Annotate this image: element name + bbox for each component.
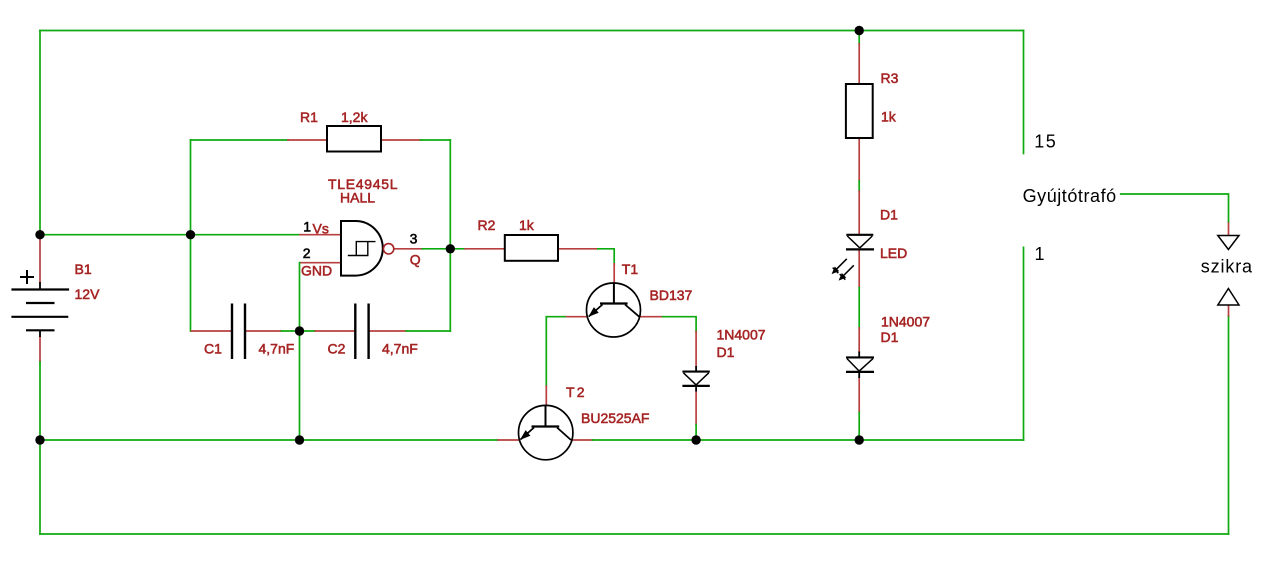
wire LED anode pin stub (red)	[858, 191, 860, 235]
svg-text:T2: T2	[566, 384, 587, 400]
spark gap top triangle	[1218, 236, 1239, 250]
transistor T2 BU2525AF	[519, 405, 573, 459]
svg-text:Q: Q	[410, 251, 421, 267]
wire C1 right net to GND junction	[281, 330, 299, 332]
wire spark gap top pin stub (red)	[1228, 222, 1230, 235]
wire 1N4007 cathode net to bottom rail	[858, 412, 860, 440]
battery B1	[11, 270, 69, 337]
wire D1 cathode net to bottom rail	[695, 425, 697, 440]
wire T1 collector net corner to D1	[663, 317, 696, 332]
wire junction Q to R2 (green)	[450, 248, 465, 250]
svg-text:T1: T1	[622, 261, 639, 277]
wire T2 emitter pin stub (red)	[498, 439, 519, 441]
svg-text:3: 3	[410, 230, 418, 246]
wire hall output pin3 stub (red)	[394, 248, 422, 250]
svg-text:Gyújtótrafó: Gyújtótrafó	[1023, 186, 1117, 206]
svg-text:szikra: szikra	[1201, 256, 1253, 276]
svg-text:4,7nF: 4,7nF	[382, 340, 418, 356]
svg-text:HALL: HALL	[340, 190, 375, 206]
wire D1 cathode pin stub (red)	[695, 392, 697, 425]
svg-text:D1: D1	[880, 207, 898, 223]
wire battery plus pin stub (red)	[39, 239, 41, 283]
svg-text:15: 15	[1034, 132, 1057, 152]
wire pin3 net to junction Q	[422, 248, 450, 250]
wire bottom-most rail to spark gap	[40, 533, 1229, 535]
junction node GND vertical bottom rail	[295, 435, 304, 444]
svg-text:1: 1	[303, 219, 311, 235]
hall output inversion bubble	[383, 244, 393, 254]
svg-text:R2: R2	[478, 217, 496, 233]
svg-text:BU2525AF: BU2525AF	[581, 410, 649, 426]
junction node D1 bottom rail	[691, 435, 700, 444]
wire R3 bottom pin stub (red)	[858, 138, 860, 181]
svg-text:GND: GND	[301, 263, 332, 279]
svg-text:LED: LED	[880, 245, 907, 261]
svg-text:1N4007: 1N4007	[881, 313, 930, 329]
wire R1 right pin stub (red)	[381, 139, 421, 141]
svg-text:C2: C2	[328, 340, 346, 356]
transistor T1 BD137	[587, 283, 641, 337]
resistor R2	[505, 235, 558, 261]
hysteresis symbol inside hall sensor	[348, 242, 376, 256]
wire C1 left pin stub (red)	[192, 330, 233, 332]
junction node C1 C2 GND	[295, 326, 304, 335]
wire 1N4007 anode pin stub (red)	[858, 328, 860, 352]
wire D1 anode pin stub (red)	[695, 332, 697, 367]
svg-text:Vs: Vs	[313, 221, 329, 237]
svg-text:1k: 1k	[519, 217, 535, 233]
wire terminal1 vertical	[1023, 247, 1025, 440]
wire C2 left pin stub (red)	[315, 330, 355, 332]
wire C2 right net to x450 vertical	[406, 330, 450, 332]
wire R1 left pin stub (red)	[288, 139, 327, 141]
wire LED cathode pin stub (red)	[858, 250, 860, 288]
wire hall GND vertical down	[299, 263, 301, 440]
svg-text:R3: R3	[881, 70, 899, 86]
wire left vertical from top rail to battery plus	[39, 31, 41, 239]
capacitor C2	[355, 304, 368, 360]
wire x450 vertical feedback	[449, 140, 451, 331]
wire T1 emitter net corner down to T2 base	[546, 317, 565, 386]
wire C2 left net	[300, 330, 316, 332]
wire bottom rail right of T2 to terminal1 corner	[593, 439, 1024, 441]
junction node Q output	[446, 244, 455, 253]
wire T1 base pin stub (red)	[613, 264, 615, 283]
wire R2 left pin stub (red)	[465, 248, 505, 250]
junction node 1N4007 bottom rail	[855, 435, 864, 444]
wire R3 top net stub (green)	[858, 31, 860, 45]
wire T1 emitter pin stub (red)	[565, 316, 587, 318]
wire spark gap bottom vertical (green)	[1228, 316, 1230, 534]
resistor R1	[327, 126, 381, 152]
svg-text:1: 1	[1035, 244, 1045, 264]
junction node x190 on VCC wire	[186, 230, 195, 239]
svg-text:1k: 1k	[881, 109, 897, 125]
wire R2 right net corner to T1 base	[598, 249, 614, 264]
svg-text:1,2k: 1,2k	[341, 109, 368, 125]
diode D1 1N4007 (right)	[846, 352, 874, 379]
junction node R3 top rail	[855, 26, 864, 35]
wire T2 base pin stub (red)	[545, 386, 547, 405]
wire R3 to LED net (green)	[858, 181, 860, 191]
wire terminal15 vertical	[1023, 31, 1025, 154]
svg-text:D1: D1	[717, 344, 735, 360]
wire x190 vertical R1 left to C1	[190, 140, 192, 331]
wire LED to 1N4007 net (green)	[858, 288, 860, 328]
wire C1 right pin stub (red)	[245, 330, 281, 332]
svg-text:R1: R1	[300, 109, 318, 125]
capacitor C1	[232, 304, 245, 360]
LED D1	[832, 235, 874, 281]
wire spark gap bottom pin stub (red)	[1228, 305, 1230, 316]
wire battery minus pin stub (red)	[39, 337, 41, 362]
svg-text:4,7nF: 4,7nF	[259, 340, 295, 356]
wire gyujtotrafo horizontal to spark gap	[1121, 194, 1229, 222]
wire hall pin1 Vs stub (red)	[300, 234, 341, 236]
spark gap bottom triangle	[1218, 289, 1239, 306]
junction node bottom rail left	[35, 435, 44, 444]
wire R1 right net to x450 vertical	[421, 139, 451, 141]
svg-text:1N4007: 1N4007	[717, 326, 766, 342]
svg-text:12V: 12V	[75, 286, 101, 302]
op-amp U1 hall sensor TLE4945L body	[341, 221, 383, 276]
wire R2 right pin stub (red)	[558, 248, 598, 250]
wire T2 collector pin stub (red)	[573, 439, 593, 441]
wire 1N4007 cathode pin stub (red)	[858, 378, 860, 412]
diode D1 1N4007 (left)	[682, 366, 709, 392]
svg-text:B1: B1	[75, 261, 92, 277]
junction node battery top rail	[35, 230, 44, 239]
svg-text:D1: D1	[881, 329, 899, 345]
wire bottom rail left of T2	[40, 439, 498, 441]
svg-text:C1: C1	[204, 340, 222, 356]
wire left vertical battery minus to bottom rails	[39, 362, 41, 534]
wire top rail +12V net	[40, 30, 1024, 32]
wire R3 top pin stub (red)	[858, 44, 860, 84]
svg-text:2: 2	[303, 245, 311, 261]
wire C2 right pin stub (red)	[369, 330, 407, 332]
wire hall pin2 GND stub (red)	[300, 262, 341, 264]
resistor R3	[846, 84, 873, 138]
wire node VCC horizontal battery to hall Vs	[40, 234, 300, 236]
wire T1 collector pin stub (red)	[640, 316, 663, 318]
wire R1 left net (green)	[191, 139, 289, 141]
svg-text:BD137: BD137	[650, 287, 693, 303]
